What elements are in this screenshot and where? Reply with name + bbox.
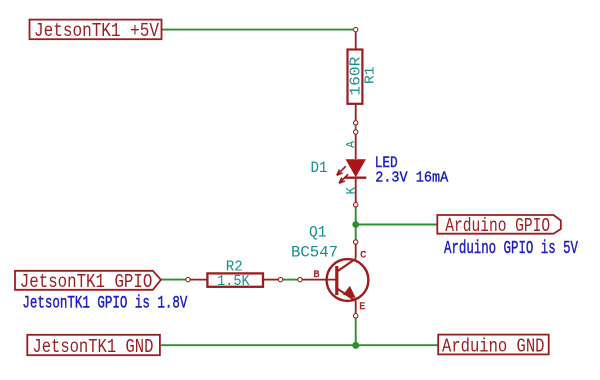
- R2 body: [207, 273, 263, 286]
- R2 pin 1: [189, 279, 207, 281]
- wire +5V horizontal: [162, 29, 354, 31]
- svg-text:Arduino GPIO is 5V: Arduino GPIO is 5V: [444, 239, 578, 259]
- D1 cathode pin end: [354, 203, 358, 207]
- label JetsonTK1 GND: [27, 335, 160, 358]
- R1 pin 1: [355, 31, 357, 49]
- resistor R2: [186, 258, 283, 290]
- svg-text:E: E: [359, 302, 365, 313]
- svg-text:BC547: BC547: [291, 243, 338, 261]
- Q1 base pin: [303, 279, 337, 281]
- svg-text:R1: R1: [363, 66, 379, 84]
- Q1 base bar: [335, 266, 338, 295]
- wire emitter to GND: [355, 318, 357, 345]
- R1 pin 2: [355, 104, 357, 121]
- D1 light arrow 2: [339, 174, 348, 183]
- D1 cathode pin: [355, 179, 357, 203]
- Q1 emitter diagonal: [337, 289, 356, 302]
- R1 body: [348, 50, 363, 104]
- wire GPIO label to R2: [161, 279, 187, 281]
- R2 pin 1 end: [186, 277, 190, 281]
- svg-text:JetsonTK1 GPIO: JetsonTK1 GPIO: [20, 271, 153, 293]
- wire LED to node A: [355, 206, 357, 225]
- Q1 collector pin end: [354, 240, 358, 244]
- Q1 base pin end: [298, 277, 302, 281]
- wire node A to collector: [355, 225, 357, 241]
- label Arduino GND: [438, 335, 549, 358]
- svg-text:D1: D1: [311, 159, 328, 177]
- svg-text:2.3V 16mA: 2.3V 16mA: [375, 170, 448, 187]
- svg-text:1.5K: 1.5K: [217, 273, 250, 290]
- Q1 collector diagonal: [337, 259, 356, 272]
- svg-text:JetsonTK1 GPIO is 1.8V: JetsonTK1 GPIO is 1.8V: [22, 294, 187, 314]
- svg-text:K: K: [344, 187, 358, 195]
- label JetsonTK1 GPIO: [15, 271, 161, 293]
- Q1 body circle: [327, 259, 369, 301]
- R2 pin 2: [263, 279, 279, 281]
- Q1 collector pin: [355, 244, 357, 258]
- svg-text:JetsonTK1 GND: JetsonTK1 GND: [32, 336, 153, 358]
- D1 anode pin: [355, 135, 357, 160]
- svg-text:JetsonTK1 +5V: JetsonTK1 +5V: [34, 20, 159, 42]
- svg-text:Arduino GND: Arduino GND: [442, 336, 545, 358]
- label Arduino GPIO: [437, 215, 561, 237]
- resistor R1: [348, 27, 379, 125]
- wire node A to Arduino GPIO: [356, 224, 438, 226]
- Q1 emitter pin end: [354, 314, 358, 318]
- node GND junction: [352, 342, 359, 349]
- R1 pin 1 end: [354, 27, 358, 31]
- D1 triangle: [346, 159, 366, 177]
- node A junction: [352, 221, 359, 228]
- wire R1 to LED: [355, 124, 357, 131]
- wire R2 to base: [283, 279, 298, 281]
- D1 light arrow 1: [337, 166, 346, 175]
- svg-text:B: B: [314, 270, 320, 281]
- svg-text:Arduino GPIO: Arduino GPIO: [445, 215, 550, 237]
- svg-text:Q1: Q1: [309, 223, 327, 241]
- R2 pin 2 end: [278, 277, 282, 281]
- D1 anode pin end: [354, 130, 358, 134]
- R1 pin 2 end: [354, 121, 358, 125]
- transistor Q1: [298, 240, 369, 318]
- svg-text:A: A: [345, 141, 358, 148]
- svg-text:C: C: [360, 251, 366, 262]
- Q1 emitter arrow: [343, 286, 356, 298]
- D1 cathode bar: [344, 177, 366, 179]
- wire GND horizontal: [161, 344, 438, 346]
- LED D1: [337, 130, 367, 207]
- Q1 emitter pin: [355, 301, 357, 314]
- label JetsonTK1 +5V: [30, 20, 162, 42]
